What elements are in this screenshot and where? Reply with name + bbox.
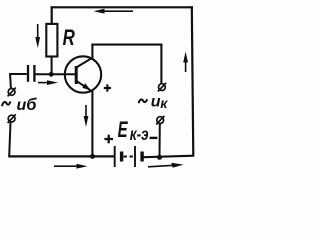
- wire base lead: [35, 73, 76, 75]
- terminal u_k upper: [158, 83, 166, 92]
- svg-text:E: E: [118, 117, 128, 142]
- arrow current on top rail (left): [94, 9, 134, 14]
- wire input upper lead: [9, 73, 12, 89]
- wire input lower lead: [9, 123, 10, 157]
- svg-text:u: u: [151, 93, 161, 110]
- terminal u_b lower: [8, 114, 16, 123]
- label ~u_k: [139, 93, 169, 111]
- svg-text:к-э: к-э: [130, 124, 149, 144]
- wire emitter vertical: [91, 91, 93, 157]
- svg-text:к: к: [160, 95, 168, 111]
- arrow emitter current down: [84, 105, 89, 127]
- svg-text:u: u: [17, 97, 27, 114]
- arrow bottom-right current: [148, 163, 184, 168]
- wire stub from top rail to resistor: [51, 6, 53, 25]
- wire collector to uk terminal: [91, 45, 161, 84]
- label ~u_b: [2, 96, 37, 114]
- wire right edge: [192, 6, 194, 156]
- transistor VT: [65, 56, 101, 92]
- resistor R: [46, 24, 75, 57]
- wire bottom left: [8, 155, 114, 157]
- node junction base: [49, 72, 54, 77]
- wire uk lower lead: [159, 124, 161, 157]
- capacitor C: [10, 65, 34, 82]
- label + near emitter: [104, 84, 111, 91]
- wire bottom right: [144, 156, 195, 158]
- wire top rail: [51, 6, 193, 8]
- wire resistor bottom lead: [51, 56, 53, 74]
- arrow base current: [38, 80, 58, 85]
- svg-text:б: б: [26, 96, 37, 114]
- terminal u_b upper: [8, 88, 16, 97]
- svg-text:R: R: [63, 26, 76, 51]
- arrow bottom-left current: [54, 164, 88, 169]
- wire collector vertical: [91, 44, 93, 59]
- node junction emitter-bottom: [90, 154, 95, 159]
- arrow right-edge current up: [183, 52, 188, 73]
- arrow current down beside R: [35, 24, 40, 48]
- terminal u_k lower: [156, 116, 164, 125]
- node junction uk-bottom: [157, 155, 162, 160]
- battery E_k-e: [104, 117, 157, 167]
